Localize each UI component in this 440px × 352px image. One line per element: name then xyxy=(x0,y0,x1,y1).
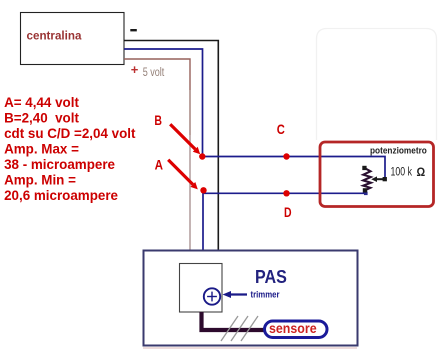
svg-text:A: A xyxy=(155,156,163,172)
svg-text:centralina: centralina xyxy=(27,29,82,43)
red measurement text block xyxy=(4,95,136,203)
svg-text:D: D xyxy=(284,205,292,221)
svg-text:20,6 microampere: 20,6 microampere xyxy=(4,188,118,203)
svg-text:PAS: PAS xyxy=(255,266,287,287)
svg-text:38 - microampere: 38 - microampere xyxy=(4,157,115,172)
svg-text:B=2,40 volt: B=2,40 volt xyxy=(4,111,79,126)
svg-text:Amp. Min =: Amp. Min = xyxy=(4,173,76,188)
svg-text:100 k: 100 k xyxy=(391,165,413,179)
potentiometer box xyxy=(320,142,434,207)
wire blue pot bottom to A xyxy=(203,192,367,194)
junction dot C xyxy=(283,153,289,159)
trimmer circle xyxy=(204,288,220,304)
wire brown +5V horizontal xyxy=(124,59,190,90)
potentiometer wiper arrow xyxy=(371,176,387,182)
junction dot A xyxy=(200,187,206,193)
junction dot B xyxy=(199,153,205,159)
wire blue upper xyxy=(124,49,203,157)
pot bottom wire end dot xyxy=(364,192,368,196)
svg-text:5 volt: 5 volt xyxy=(143,66,165,80)
svg-text:C: C xyxy=(277,122,285,137)
potentiometer R zigzag xyxy=(363,169,371,191)
arrow B xyxy=(170,124,200,154)
ghost box top right xyxy=(317,29,437,141)
svg-text:cdt su C/D =2,04 volt: cdt su C/D =2,04 volt xyxy=(4,126,136,141)
svg-text:B: B xyxy=(154,113,162,129)
trimmer arrow xyxy=(223,291,248,298)
svg-text:Ω: Ω xyxy=(417,167,426,180)
svg-text:potenziometro: potenziometro xyxy=(370,145,427,156)
hatch marks xyxy=(221,316,258,341)
svg-text:trimmer: trimmer xyxy=(251,289,281,300)
svg-text:sensore: sensore xyxy=(269,321,317,337)
svg-text:A= 4,44 volt: A= 4,44 volt xyxy=(4,95,79,110)
wire brown +5V vertical xyxy=(189,90,191,135)
inner module box xyxy=(180,264,223,313)
wire blue B to potentiometer wiper xyxy=(203,157,386,180)
thick sensor wire xyxy=(202,312,265,330)
svg-text:+: + xyxy=(131,62,139,77)
centralina box xyxy=(21,13,125,65)
wire black negative xyxy=(124,41,218,265)
svg-text:Amp. Max =: Amp. Max = xyxy=(4,142,79,157)
sensore label xyxy=(265,321,328,338)
PAS box xyxy=(144,251,358,346)
minus label xyxy=(130,29,137,31)
pot terminal top xyxy=(362,166,366,170)
pot terminal bottom xyxy=(363,188,367,192)
junction dot D xyxy=(283,190,289,196)
faint line under PAS box xyxy=(143,347,357,349)
wire blue A down to PAS xyxy=(202,191,204,265)
arrow A xyxy=(168,160,198,190)
